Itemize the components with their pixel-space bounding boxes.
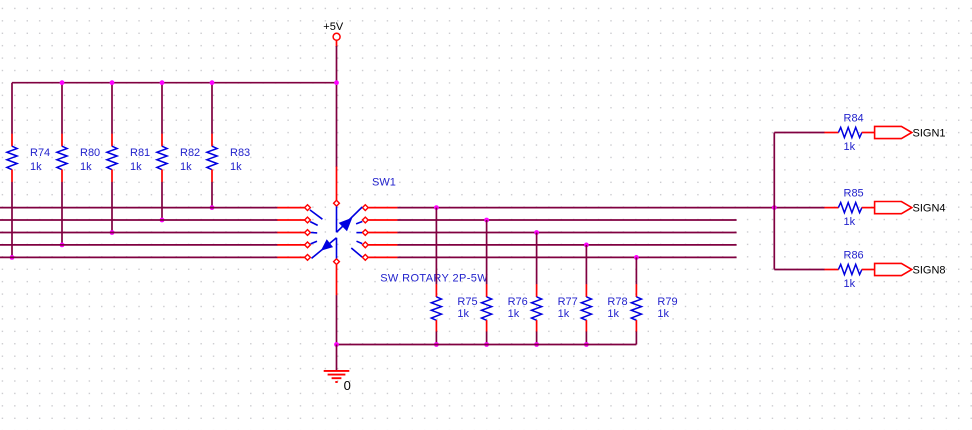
SW1 left pin 4 lead: [277, 244, 304, 246]
wire row 1 right of SW1 to SIGN4 branch: [397, 207, 824, 209]
wire row 5 right of SW1: [397, 256, 736, 258]
svg-text:1k: 1k: [844, 216, 856, 228]
SW1 lower common bar: [336, 238, 338, 259]
wire R74 to row: [11, 182, 13, 258]
port SIGN4: [875, 202, 946, 215]
svg-text:1k: 1k: [844, 141, 856, 153]
wire +5V to bus junction: [336, 46, 338, 83]
wire R81 to row: [111, 182, 113, 233]
wire R75 to ground rail: [435, 332, 437, 345]
SW1 throw stub L3: [311, 232, 317, 234]
svg-text:R84: R84: [844, 112, 864, 124]
resistor R75 1k: [431, 284, 477, 332]
svg-text:1k: 1k: [607, 308, 619, 320]
svg-text:SW ROTARY 2P-5W: SW ROTARY 2P-5W: [380, 272, 488, 284]
svg-text:R79: R79: [657, 296, 677, 308]
svg-text:1k: 1k: [30, 161, 42, 173]
SW1 left pin 2 lead: [277, 219, 304, 221]
wire R82 to row: [161, 182, 163, 220]
SW1 throw stub L4: [311, 241, 317, 244]
resistor R84 1k: [824, 112, 874, 153]
SW1 right pin 2: [362, 217, 368, 223]
wire to R84: [774, 132, 824, 134]
resistor R83 1k: [207, 134, 250, 182]
SW1 right pin 3: [362, 230, 368, 236]
wire bus to R74: [11, 83, 13, 134]
SW1 right pin 3 lead: [368, 232, 397, 234]
wire ground rail: [337, 344, 637, 346]
svg-text:1k: 1k: [558, 308, 570, 320]
wire row to R76: [486, 220, 488, 284]
resistor R80 1k: [57, 134, 100, 182]
wire bus to R81: [111, 83, 113, 134]
SW1 throw stub R3: [356, 232, 362, 234]
wire R77 to ground rail: [536, 332, 538, 345]
SW1 throw stub L2: [310, 222, 318, 226]
wire row 4 right of SW1: [397, 244, 736, 246]
wire R83 to row: [211, 182, 213, 208]
wire SIGN vertical lower: [773, 208, 775, 270]
resistor R77 1k: [532, 284, 578, 332]
SW1 throw stub R4: [357, 241, 363, 243]
wire to R86: [774, 269, 824, 271]
svg-text:R82: R82: [180, 147, 200, 159]
svg-text:+5V: +5V: [323, 21, 344, 33]
resistor R81 1k: [107, 134, 150, 182]
svg-text:1k: 1k: [844, 278, 856, 290]
SW1 throw stub L1: [310, 210, 323, 219]
SW1 left pin 1 lead: [277, 207, 304, 209]
junction row 2 / R76 column: [484, 218, 489, 223]
svg-text:R75: R75: [457, 296, 477, 308]
junction row 3 / R77 column: [534, 230, 539, 235]
junction row 1 / SIGN vertical: [772, 205, 777, 210]
wire row 3 left of SW1: [0, 232, 278, 234]
svg-text:0: 0: [344, 378, 351, 393]
wire row to R78: [585, 245, 587, 285]
junction ground rail / R75: [434, 342, 439, 347]
wire R80 to row: [61, 182, 63, 245]
svg-text:R74: R74: [30, 147, 50, 159]
svg-text:R81: R81: [130, 147, 150, 159]
svg-text:1k: 1k: [180, 161, 192, 173]
wire row 4 left of SW1: [0, 244, 278, 246]
svg-text:SIGN1: SIGN1: [913, 128, 946, 140]
resistor R82 1k: [157, 134, 200, 182]
wire row 2 left of SW1: [0, 219, 278, 221]
SW1 left pin 1: [305, 205, 311, 211]
wire bus junction to switch SW1 top pin: [336, 83, 338, 167]
svg-text:R83: R83: [230, 147, 250, 159]
junction ground rail / R76: [484, 342, 489, 347]
junction R74 / row: [10, 255, 15, 260]
svg-text:1k: 1k: [130, 161, 142, 173]
junction bus / R81 column: [110, 80, 115, 85]
svg-text:R80: R80: [80, 147, 100, 159]
junction row 5 / R79 column: [634, 255, 639, 260]
SW1 right pin 1: [362, 205, 368, 211]
resistor R86 1k: [824, 249, 874, 290]
wire bus to R80: [61, 83, 63, 134]
SW1 bottom pin lead: [336, 265, 338, 296]
wire ground junction to ground symbol: [336, 345, 338, 371]
SW1 wiper 1: [337, 207, 363, 232]
junction bus / R80 column: [60, 80, 65, 85]
svg-text:R76: R76: [508, 296, 528, 308]
SW1 right pin 1 lead: [368, 207, 397, 209]
svg-text:1k: 1k: [508, 308, 520, 320]
junction R82 / row: [160, 218, 165, 223]
junction ground rail / ground: [334, 342, 339, 347]
SW1 throw stub R2: [356, 222, 362, 224]
wire bus to R83: [211, 83, 213, 134]
wire SW1 bottom pin to ground junction: [336, 295, 338, 344]
resistor R74 1k: [7, 134, 50, 182]
port SIGN8: [875, 263, 946, 276]
svg-text:R86: R86: [844, 249, 864, 261]
svg-text:R77: R77: [558, 296, 578, 308]
wire R76 to ground rail: [486, 332, 488, 345]
SW1 wiper 2: [312, 238, 337, 259]
svg-text:SW1: SW1: [372, 176, 396, 188]
wire row to R77: [536, 233, 538, 285]
junction ground rail / R77: [534, 342, 539, 347]
wire bus to R82: [161, 83, 163, 134]
port SIGN1: [875, 126, 946, 139]
junction ground rail / R78: [584, 342, 589, 347]
junction R80 / row: [60, 243, 65, 248]
SW1 top pin: [334, 200, 340, 206]
svg-text:1k: 1k: [657, 308, 669, 320]
junction row 4 / R78 column: [584, 243, 589, 248]
ground symbol: [324, 371, 350, 382]
SW1 right pin 4 lead: [368, 244, 397, 246]
SW1 right pin 5: [362, 255, 368, 261]
resistor R85 1k: [824, 187, 874, 228]
wire row 1 left of SW1: [0, 207, 278, 209]
wire row to R75: [435, 208, 437, 285]
SW1 left pin 2: [305, 217, 311, 223]
resistor R78 1k: [581, 284, 627, 332]
SW1 left pin 3 lead: [277, 232, 304, 234]
svg-text:1k: 1k: [457, 308, 469, 320]
svg-text:SIGN8: SIGN8: [913, 265, 946, 277]
SW1 left pin 3: [305, 230, 311, 236]
wire SIGN vertical upper: [773, 133, 775, 208]
SW1 bottom pin: [334, 259, 340, 265]
SW1 upper common bar: [336, 206, 338, 232]
SW1 wiper 1 arrowhead: [340, 219, 352, 231]
svg-text:1k: 1k: [230, 161, 242, 173]
wire row 3 right of SW1: [397, 232, 736, 234]
SW1 right pin 5 lead: [368, 256, 397, 258]
power +5V symbol: [323, 21, 344, 47]
svg-text:R85: R85: [844, 187, 864, 199]
SW1 left pin 5 lead: [277, 256, 304, 258]
svg-text:R78: R78: [607, 296, 627, 308]
junction +5V column at bus: [334, 80, 339, 85]
wire row to R79: [635, 257, 637, 284]
resistor R79 1k: [631, 284, 677, 332]
resistor R76 1k: [482, 284, 528, 332]
junction bus / R83 column: [210, 80, 215, 85]
switch SW1 SW ROTARY 2P-5W: [277, 167, 488, 296]
junction row 1 / R75 column: [434, 205, 439, 210]
SW1 left pin 4: [305, 242, 311, 248]
wire +5V horizontal bus: [12, 82, 337, 84]
junction bus / R82 column: [160, 80, 165, 85]
SW1 left pin 5: [305, 255, 311, 261]
SW1 top pin lead: [336, 167, 338, 201]
SW1 wiper 2 arrowhead: [322, 240, 332, 250]
SW1 right pin 2 lead: [368, 219, 397, 221]
wire row 2 right of SW1: [397, 219, 736, 221]
junction R81 / row: [110, 230, 115, 235]
SW1 right pin 4: [362, 242, 368, 248]
svg-text:1k: 1k: [80, 161, 92, 173]
junction R83 / row: [210, 205, 215, 210]
wire R79 to ground rail: [635, 332, 637, 345]
wire row 5 left of SW1: [0, 256, 278, 258]
wire R78 to ground rail: [585, 332, 587, 345]
svg-text:SIGN4: SIGN4: [913, 203, 946, 215]
SW1 throw stub R5: [351, 248, 362, 257]
